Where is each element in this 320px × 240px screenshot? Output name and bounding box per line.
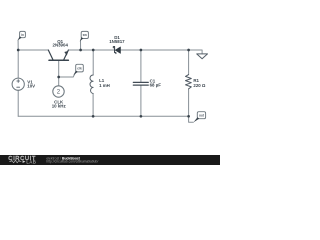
wire V1 top branch [17, 50, 19, 78]
wire C1 branch bottom [140, 85, 142, 116]
wire top from in node to Q1 collector lead [18, 49, 48, 51]
junction dot R1 bottom [187, 115, 190, 118]
node clk flag [76, 64, 84, 72]
wire base junction to clk flag [59, 72, 76, 77]
resistor R1 [186, 75, 192, 89]
wire Q1 emitter lead to sw node to L1 junction to diode [68, 49, 114, 51]
svg-text:in: in [21, 33, 24, 37]
wire L1 branch top [92, 50, 94, 75]
wire sw flag tail drop [80, 41, 82, 50]
junction dot C1 top [140, 49, 143, 52]
wire R1 branch top [188, 50, 190, 75]
node out flag [197, 112, 205, 119]
svg-text:1 mH: 1 mH [99, 83, 110, 88]
svg-text:LAB: LAB [26, 159, 36, 164]
node sw flag [81, 31, 88, 38]
svg-text:10 kHz: 10 kHz [52, 104, 67, 109]
wire C1 branch top [140, 50, 142, 82]
clock source CLK [53, 86, 64, 97]
junction dot sw node [79, 49, 82, 52]
wire R1 branch bottom [188, 89, 190, 116]
svg-text:sw: sw [83, 33, 88, 37]
diode D1 [115, 47, 120, 54]
inductor L1 [90, 75, 93, 94]
wire diode to C1 junction to R1 junction to gnd corner [121, 50, 203, 54]
wire base junction to CLK source [58, 77, 60, 86]
svg-text:clk: clk [77, 66, 82, 70]
transistor Q1 emitter arrow [64, 51, 68, 56]
capacitor C1 [133, 82, 148, 85]
wire in flag tail drop [17, 40, 19, 50]
svg-text:2N3904: 2N3904 [53, 43, 69, 48]
wire bottom rail [18, 115, 188, 117]
junction dot L1 bottom [92, 115, 95, 118]
svg-text:1N5817: 1N5817 [109, 39, 125, 44]
wire out flag stub [189, 116, 194, 122]
junction dot L1 top [92, 49, 95, 52]
junction dot base [57, 76, 60, 79]
junction dot C1 bottom [140, 115, 143, 118]
junction dot in node [17, 49, 20, 52]
svg-text:68 µF: 68 µF [150, 82, 162, 87]
wire L1 branch bottom [92, 94, 94, 117]
watermark logo zigzag [9, 160, 21, 162]
svg-text:220 Ω: 220 Ω [193, 83, 206, 88]
wire Q1 base to junction [58, 60, 60, 77]
node in flag [20, 31, 26, 37]
wire V1 bottom to rail [17, 90, 19, 116]
ground [197, 54, 208, 59]
svg-text:10V: 10V [27, 84, 35, 89]
transistor Q1 [48, 50, 68, 60]
watermark bar [0, 155, 220, 165]
voltage source V1 [12, 78, 24, 90]
svg-text:http://circuitlab.com/c/8kuma9: http://circuitlab.com/c/8kuma9a9ub/ [46, 160, 98, 164]
junction dot R1 top [187, 49, 190, 52]
